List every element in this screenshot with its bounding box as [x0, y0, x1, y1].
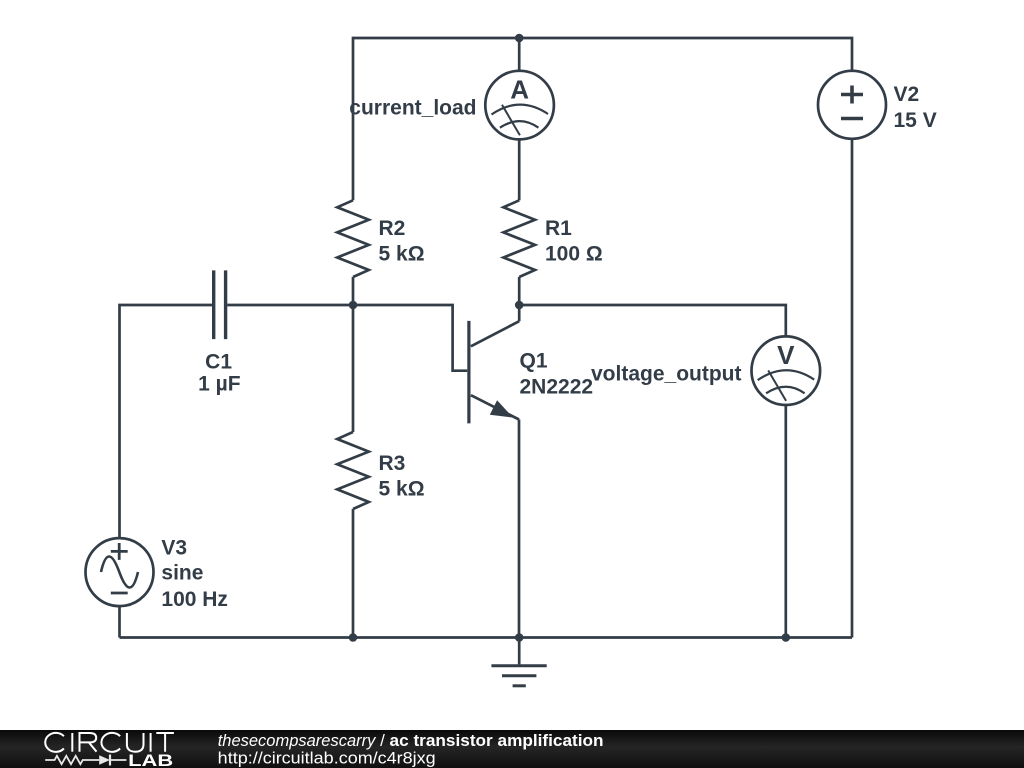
logo schematic squiggle resistor and diode: [45, 755, 126, 766]
resistor R3: [337, 432, 369, 509]
wire R1 to collector node: [518, 277, 521, 305]
wire ammeter top lead: [518, 38, 521, 71]
svg-text:100 Ω: 100 Ω: [545, 242, 603, 265]
wire C1 left to V3: [120, 305, 213, 538]
voltage source V3: [86, 538, 154, 606]
wire R2 to node: [352, 277, 355, 305]
svg-text:2N2222: 2N2222: [520, 376, 594, 399]
svg-text:R2: R2: [379, 217, 406, 240]
svg-text:100 Hz: 100 Hz: [161, 588, 228, 611]
svg-text:A: A: [510, 75, 529, 105]
capacitor C1: [214, 270, 226, 339]
svg-text:5 kΩ: 5 kΩ: [379, 477, 425, 500]
svg-text:Q1: Q1: [520, 349, 548, 372]
voltage source V2: [818, 71, 886, 139]
svg-text:V2: V2: [894, 83, 920, 106]
svg-text:R1: R1: [545, 217, 572, 240]
logo CIRCUIT: [45, 733, 174, 752]
wire ammeter to R1: [518, 139, 521, 200]
wire R3 to bottom node: [352, 509, 355, 638]
wire V3 to bottom rail: [118, 606, 121, 637]
svg-text:voltage_output: voltage_output: [591, 363, 742, 386]
wire node to R3: [352, 305, 355, 432]
svg-text:V: V: [777, 340, 795, 370]
svg-text:sine: sine: [161, 562, 203, 585]
ammeter current_load: [485, 71, 554, 140]
footer bar: [0, 730, 1024, 768]
svg-text:1 µF: 1 µF: [198, 372, 241, 395]
svg-text:V3: V3: [161, 536, 187, 559]
svg-text:5 kΩ: 5 kΩ: [379, 242, 425, 265]
voltmeter voltage_output: [752, 336, 821, 405]
svg-text:C1: C1: [205, 350, 232, 373]
resistor R2: [337, 200, 369, 277]
node collector junction: [515, 301, 524, 310]
ground: [491, 638, 546, 686]
svg-text:current_load: current_load: [349, 96, 476, 119]
svg-text:http://circuitlab.com/c4r8jxg: http://circuitlab.com/c4r8jxg: [218, 748, 436, 767]
svg-text:15 V: 15 V: [894, 109, 937, 132]
svg-text:thesecompsarescarry / ac trans: thesecompsarescarry / ac transistor ampl…: [218, 731, 604, 750]
wire collector node to voltmeter: [519, 305, 786, 336]
svg-text:LAB: LAB: [128, 752, 173, 768]
svg-text:R3: R3: [379, 452, 406, 475]
wire voltmeter to bottom rail: [784, 405, 787, 637]
transistor Q1: [469, 305, 519, 423]
node bottom emitter junction: [515, 633, 524, 642]
node R2 R3 base junction: [349, 301, 358, 310]
node bottom voltmeter junction: [782, 633, 791, 642]
node bottom R3 junction: [349, 633, 358, 642]
wire emitter to bottom rail: [518, 420, 521, 638]
wire V+ top rail: [353, 38, 852, 200]
node top junction: [515, 34, 524, 43]
wire base wire from C1: [227, 305, 467, 371]
resistor R1: [503, 200, 535, 277]
wire bottom rail: [120, 636, 853, 639]
wire V2 to bottom rail: [851, 139, 854, 638]
